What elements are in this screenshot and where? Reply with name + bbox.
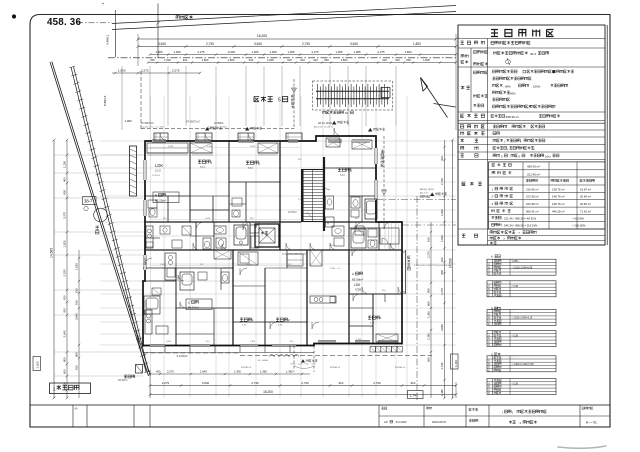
east dash-dot boundary [416, 196, 418, 400]
bottom overall 16,200 [150, 394, 456, 396]
svg-text:LDK: LDK [354, 283, 361, 287]
svg-text:10: 10 [345, 111, 349, 115]
svg-text:AB+0.15···: AB+0.15··· [420, 192, 430, 195]
lower left unit bath [144, 296, 160, 314]
svg-text:20.60 m²: 20.60 m² [580, 202, 591, 206]
bicycle parking rack [313, 81, 393, 110]
svg-text:56.52m²: 56.52m² [118, 378, 128, 382]
svg-text:400: 400 [63, 177, 67, 182]
wall dim leader lines [150, 147, 300, 149]
svg-text:< 5.39: < 5.39 [512, 383, 519, 386]
svg-text:1,820: 1,820 [405, 50, 412, 54]
svg-text:16.5J: 16.5J [155, 170, 162, 173]
title strip project name [469, 408, 478, 411]
left level box [33, 357, 41, 371]
svg-text:3,195: 3,195 [63, 269, 67, 276]
dimension row 3,640/2,730 ... [138, 46, 456, 48]
svg-text:71.62 m²: 71.62 m² [580, 210, 591, 214]
svg-text:148.76 m²: 148.76 m² [552, 202, 565, 206]
svg-text:2,275: 2,275 [427, 251, 431, 258]
svg-text:10.67m²: 10.67m² [288, 211, 297, 214]
extra fixtures mid band [160, 226, 170, 234]
svg-text:910: 910 [440, 257, 444, 262]
svg-text:910: 910 [75, 288, 79, 293]
plan title box 1F [50, 383, 91, 394]
row construction name [461, 41, 485, 44]
right dim chain inner [430, 222, 432, 398]
svg-text:14,560: 14,560 [50, 248, 54, 258]
svg-text:910: 910 [249, 58, 254, 62]
svg-text:900: 900 [427, 288, 431, 293]
svg-text:3,640: 3,640 [350, 42, 358, 46]
balcony dividers south [164, 346, 166, 353]
area table section [462, 182, 482, 186]
entrance porch walls west [130, 146, 137, 196]
handwritten lot note [505, 58, 511, 65]
svg-text:< 1.631×1.940=3.16: < 1.631×1.940=3.16 [512, 317, 533, 320]
svg-text:1,820: 1,820 [250, 146, 256, 148]
svg-text:16,200: 16,200 [257, 34, 267, 38]
svg-text:4.5J: 4.5J [278, 325, 282, 327]
west site boundary double line [50, 62, 109, 249]
svg-text:446.28 m²: 446.28 m² [552, 210, 565, 214]
svg-text:1,365: 1,365 [260, 370, 267, 374]
closets with X [190, 143, 212, 153]
svg-text:: 546.34 / 458.36 = 119.19%: : 546.34 / 458.36 = 119.19% [503, 224, 539, 228]
svg-text:)·: )· [520, 139, 522, 143]
svg-text:910: 910 [183, 58, 188, 62]
svg-text:1,940: 1,940 [200, 370, 207, 374]
right dim chain outer [444, 140, 446, 398]
bottom level box 1,740 [408, 391, 424, 399]
left dim chain values [66, 140, 68, 398]
svg-text:< 60.00%: < 60.00% [572, 216, 584, 220]
svg-text:800: 800 [63, 357, 67, 362]
svg-text:56.52m²: 56.52m² [188, 306, 199, 310]
svg-text:· 7: · 7 [502, 237, 506, 241]
svg-text:(1.65+··,1.24+··×9a+··×1.5): (1.65+··,1.24+··×9a+··×1.5) [290, 363, 316, 366]
svg-text:2,275: 2,275 [141, 69, 149, 73]
lot number box 38-7 [83, 197, 97, 205]
svg-text:600: 600 [150, 58, 155, 62]
svg-text:AW (D) 16014: AW (D) 16014 [420, 188, 435, 191]
svg-text:·: · [491, 92, 492, 96]
svg-text:: 60%: : 60% [504, 84, 512, 88]
svg-text:1,365: 1,365 [250, 341, 256, 343]
svg-text:500: 500 [427, 357, 431, 362]
svg-text:·: · [491, 132, 492, 136]
svg-text:AB (C) 16014: AB (C) 16014 [318, 122, 333, 125]
svg-text:1,820: 1,820 [440, 235, 444, 242]
A-unit kitchen counter [310, 296, 336, 303]
toilet 1 [203, 238, 211, 249]
svg-text:26.80m²: 26.80m² [152, 174, 160, 177]
svg-text:800: 800 [63, 189, 67, 194]
svg-text:): ) [534, 147, 535, 151]
dimension drop lines into parking [149, 66, 151, 126]
svg-text:(: ( [507, 147, 508, 151]
svg-text:138.76 m²: 138.76 m² [552, 187, 565, 191]
svg-text:1,820: 1,820 [413, 42, 421, 46]
svg-text:1,820: 1,820 [228, 58, 235, 62]
sheet corner registration dot [12, 14, 16, 18]
svg-text:4,485.1: 4,485.1 [106, 34, 110, 45]
wash stand [250, 225, 259, 233]
modular grid lines [100, 96, 456, 398]
bath tub unit B [234, 225, 248, 245]
mid band service partitions [195, 222, 197, 250]
svg-text:1,305: 1,305 [234, 370, 241, 374]
svg-text:60.25m²: 60.25m² [155, 199, 166, 203]
svg-text:1,365×···: 1,365×··· [512, 260, 522, 263]
bicycle parking label 10units [323, 111, 344, 114]
road name text [176, 16, 193, 19]
svg-text:): ) [553, 105, 554, 109]
interior walls upper band [189, 141, 191, 222]
svg-text:40 ··HB06: 40 ··HB06 [258, 360, 269, 362]
svg-text:1,740: 1,740 [410, 394, 419, 398]
svg-text:2,730: 2,730 [206, 42, 214, 46]
svg-text:16,200: 16,200 [263, 390, 273, 394]
washing machine boxes [182, 226, 191, 235]
svg-text:3,640: 3,640 [63, 330, 67, 337]
front road edge lines [112, 6, 456, 24]
svg-text:2,275: 2,275 [198, 50, 205, 54]
svg-text:·: · [491, 125, 492, 129]
svg-text:1,365: 1,365 [440, 389, 444, 396]
svg-text:·: · [491, 106, 492, 110]
svg-text:610: 610 [427, 237, 431, 242]
svg-text:910: 910 [287, 58, 292, 62]
wc beside stair [326, 196, 334, 209]
svg-text:1,365: 1,365 [288, 50, 295, 54]
remarks block [462, 234, 478, 237]
svg-text:···: ··· [512, 311, 515, 313]
svg-text:1,365: 1,365 [336, 50, 343, 54]
closet front sliding lines [147, 152, 188, 154]
svg-text:AT 65671×3: AT 65671×3 [141, 122, 154, 125]
row work type [461, 132, 485, 135]
svg-text:1,820: 1,820 [202, 58, 209, 62]
unit B table 1 [487, 310, 556, 326]
A unit inner walls [349, 307, 373, 309]
svg-text:6.5J: 6.5J [340, 174, 345, 177]
svg-text:221.45 m²: 221.45 m² [527, 172, 540, 176]
lower toilet [221, 272, 229, 283]
svg-text:470201×3: 470201×3 [395, 366, 406, 369]
svg-text:2,730: 2,730 [356, 339, 362, 341]
svg-text:10m: 10m [545, 154, 551, 158]
svg-text:910: 910 [339, 381, 344, 385]
room label bedroom1 [198, 160, 210, 163]
elevator / storage box [255, 224, 279, 247]
svg-text:458. 36: 458. 36 [47, 17, 81, 28]
svg-text:1: 1 [53, 387, 56, 392]
svg-text:910: 910 [395, 58, 400, 62]
ratio rows [492, 216, 502, 219]
unit C area box [186, 299, 212, 310]
svg-text:: 60%: : 60% [509, 91, 517, 95]
svg-text:1,365: 1,365 [354, 50, 361, 54]
svg-text:910: 910 [411, 381, 416, 385]
svg-text:3,640: 3,640 [254, 42, 262, 46]
svg-text:5.5J: 5.5J [242, 325, 246, 327]
building outer wall [143, 136, 402, 346]
svg-text:600: 600 [427, 301, 431, 306]
svg-text:1,365: 1,365 [207, 146, 213, 148]
svg-text:14,560: 14,560 [449, 258, 453, 268]
room label bedroom2 right [338, 168, 350, 171]
extra door arcs [145, 183, 397, 294]
svg-text:A: A [491, 254, 493, 258]
svg-text:2,275: 2,275 [378, 50, 385, 54]
right overall dim 14,560 [452, 140, 454, 398]
svg-text:600: 600 [324, 58, 329, 62]
block zoning [461, 86, 470, 89]
svg-text:223.38 m²: 223.38 m² [526, 202, 539, 206]
svg-text:LDK: LDK [155, 163, 163, 168]
svg-text:< 1.984×(1.940)=3.85: < 1.984×(1.940)=3.85 [512, 363, 535, 366]
unit A table 1 [487, 259, 556, 275]
svg-text:1,820: 1,820 [63, 240, 67, 247]
stair shaft [302, 170, 324, 222]
svg-text:2,275: 2,275 [172, 69, 180, 73]
svg-text:1,365: 1,365 [427, 333, 431, 340]
svg-text:(+4.20)×1/10+・·2+×1/10: (+4.20)×1/10+・·2+×1/10 [141, 126, 165, 129]
overall top dimension 16,200 [138, 38, 456, 40]
table label column dividers [487, 39, 489, 230]
svg-text:2,275: 2,275 [167, 370, 174, 374]
svg-text:910: 910 [440, 156, 444, 161]
svg-text:·: · [491, 154, 492, 158]
svg-text:1.33+···×2···: 1.33+···×2··· [330, 267, 342, 270]
entrance tile hatch [384, 222, 386, 250]
south entrance approach [293, 346, 295, 373]
svg-text:5.5J: 5.5J [248, 167, 253, 170]
svg-text:A: A [352, 272, 354, 276]
svg-text:4.5J: 4.5J [370, 323, 374, 325]
svg-text:A — 01: A — 01 [586, 421, 597, 425]
door swing arcs [160, 128, 405, 329]
svg-text:1,365: 1,365 [335, 142, 341, 144]
svg-text:· 7: · 7 [517, 231, 521, 235]
svg-text:1,820: 1,820 [205, 218, 211, 220]
svg-text:2024.06.07: 2024.06.07 [432, 420, 447, 424]
svg-text:< 5.38: < 5.38 [512, 285, 519, 288]
svg-text:-0,345: -0,345 [227, 50, 235, 54]
svg-text:2,275: 2,275 [440, 288, 444, 295]
svg-text:S=1/100: S=1/100 [396, 420, 407, 424]
svg-text:1,820: 1,820 [75, 263, 79, 270]
svg-text:A: A [327, 222, 329, 226]
unit A table 2 [487, 281, 556, 297]
svg-text:2,730: 2,730 [440, 178, 444, 185]
svg-text:: 221.45 / 458.36 = 48.31%: : 221.45 / 458.36 = 48.31% [503, 216, 537, 220]
title strip frame [30, 405, 610, 427]
svg-text:(: ( [528, 105, 529, 109]
svg-text:2,730: 2,730 [302, 42, 310, 46]
svg-text:5.5J: 5.5J [200, 166, 205, 169]
left top dims 1,900 2,275 2,275 [112, 72, 200, 74]
windows top wall [152, 140, 166, 142]
title strip date cell [427, 407, 432, 409]
svg-text:36-3: 36-3 [530, 52, 536, 56]
svg-text:1,820: 1,820 [423, 58, 430, 62]
dim 1,000 [121, 66, 123, 130]
svg-text:666.41 m²: 666.41 m² [526, 210, 539, 214]
dimension row 600/1,520/910 ... [148, 62, 456, 64]
svg-text:AT 65671×3: AT 65671×3 [186, 121, 200, 124]
room label bedroom2 [246, 161, 258, 164]
svg-text:458.36 m²: 458.36 m² [527, 165, 540, 169]
svg-text:1,365: 1,365 [156, 50, 163, 54]
lower room labels [240, 318, 252, 321]
svg-text:: 100%: : 100% [532, 84, 541, 88]
row structure [461, 139, 479, 142]
svg-text:19.87 m²: 19.87 m² [580, 187, 591, 191]
building entry dashed [383, 136, 385, 222]
bath tub unit right [365, 199, 377, 219]
balcony boxes south of A unit [370, 347, 375, 353]
svg-text:1,520: 1,520 [164, 58, 171, 62]
svg-text:· 1: · 1 [518, 421, 522, 425]
svg-text:450: 450 [156, 370, 161, 374]
svg-text:1,820: 1,820 [267, 58, 274, 62]
toilet 2 [351, 197, 360, 208]
svg-text:910: 910 [313, 58, 318, 62]
svg-text:3,640: 3,640 [75, 313, 79, 320]
svg-text:(: ( [502, 410, 503, 414]
unit B area box [153, 192, 179, 203]
svg-text:1,365: 1,365 [286, 370, 293, 374]
svg-text:B: B [155, 194, 157, 198]
table title [491, 30, 554, 37]
svg-text:1,200: 1,200 [63, 161, 67, 168]
lower bath [180, 272, 194, 290]
fence end block [136, 365, 143, 374]
scanner smudge bottom right [558, 446, 606, 448]
ground level marks [205, 127, 209, 131]
svg-text:): ) [512, 410, 513, 414]
svg-text:470201×3: 470201×3 [330, 366, 341, 369]
manhole circle [94, 208, 108, 222]
svg-text:(: ( [504, 139, 505, 143]
svg-text:5: 5 [278, 98, 281, 104]
svg-text:2,275: 2,275 [162, 381, 170, 385]
svg-text:910: 910 [75, 365, 79, 370]
svg-text:5,884.6: 5,884.6 [103, 95, 107, 106]
svg-text:3,640: 3,640 [440, 324, 444, 331]
svg-text:▼1,800LV: ▼1,800LV [176, 355, 188, 358]
svg-text:1,360: 1,360 [454, 360, 458, 367]
svg-text:600: 600 [63, 369, 67, 374]
svg-text:·: · [491, 85, 492, 89]
row usage [461, 146, 479, 149]
unit C table 1 [487, 356, 556, 372]
parking label 5 cars [254, 97, 273, 102]
svg-text:3,640: 3,640 [202, 381, 210, 385]
svg-text:2,730: 2,730 [251, 381, 259, 385]
windows bottom wall [150, 344, 165, 346]
svg-text:1,600: 1,600 [356, 290, 362, 292]
svg-text:1,365: 1,365 [252, 50, 259, 54]
road side vertical line [115, 10, 117, 57]
svg-text:148.76 m²: 148.76 m² [552, 195, 565, 199]
svg-text:910: 910 [75, 300, 79, 305]
washroom cluster right of EV [332, 226, 344, 236]
title strip scale cell [382, 407, 387, 409]
balcony bottom dashed line and shrubs [240, 355, 432, 357]
left horizontal guide lines [54, 154, 143, 156]
A-unit bath [351, 229, 366, 248]
svg-text:< 5.38: < 5.38 [512, 335, 519, 338]
kitchen counter unit A [146, 226, 153, 248]
area rows [492, 164, 511, 167]
bottom dim chain row1 [150, 373, 310, 375]
title strip number cell [582, 407, 593, 409]
svg-text:1,000: 1,000 [125, 119, 133, 123]
entrance dashed line with markers [293, 79, 295, 129]
left secondary chain [78, 250, 80, 398]
interior walls lower band [175, 268, 177, 345]
row scale [461, 154, 479, 157]
svg-text:2,730: 2,730 [373, 381, 381, 385]
svg-text:470201×3: 470201×3 [241, 366, 252, 369]
svg-text:·: · [491, 71, 492, 75]
svg-text:1,820: 1,820 [166, 341, 172, 343]
svg-text:AB+0.15=··GL+64.70: AB+0.15=··GL+64.70 [314, 126, 334, 129]
parking area boundary dashed [140, 71, 142, 129]
svg-text:910: 910 [63, 295, 67, 300]
row site area [461, 114, 485, 117]
svg-text:2,730: 2,730 [440, 362, 444, 369]
left overall dim 14,560 [53, 140, 55, 398]
corridor walls [145, 221, 301, 223]
north site boundary dash-dot [108, 57, 456, 59]
svg-text:2,730: 2,730 [301, 381, 309, 385]
svg-text:·: · [491, 139, 492, 143]
north arrow [421, 78, 448, 118]
design summary table frame [458, 25, 605, 245]
windbreak entry room [380, 228, 399, 244]
svg-text:: 458.36 m²: : 458.36 m² [504, 115, 519, 119]
unit C table 2 [487, 379, 556, 395]
svg-text:2,275: 2,275 [312, 50, 319, 54]
svg-text:600: 600 [406, 58, 411, 62]
svg-text:< 3.033×1.940=5.88: < 3.033×1.940=5.88 [512, 266, 533, 269]
svg-text:3,640: 3,640 [158, 42, 166, 46]
lower unit kitchen [145, 310, 152, 334]
svg-text:1,365: 1,365 [174, 50, 181, 54]
svg-text:A3: A3 [384, 420, 388, 424]
svg-text:·: · [491, 52, 492, 56]
svg-text:·: · [491, 99, 492, 103]
row road contact [461, 125, 485, 128]
right level box [451, 354, 459, 369]
svg-text:AT 86011: AT 86011 [214, 122, 224, 125]
upper units washrooms [148, 200, 157, 208]
svg-text:< 200.00%: < 200.00% [572, 224, 586, 228]
svg-text:800: 800 [75, 352, 79, 357]
svg-text:1,820: 1,820 [168, 146, 174, 148]
dimension row 1,365 ... [150, 54, 456, 56]
title strip sheet name [469, 419, 478, 422]
svg-text:3,275: 3,275 [63, 212, 67, 219]
svg-text:1,365: 1,365 [427, 311, 431, 318]
svg-text:1,820: 1,820 [440, 209, 444, 216]
north entry porches [154, 133, 168, 141]
boundary fence hatched band [71, 67, 146, 372]
